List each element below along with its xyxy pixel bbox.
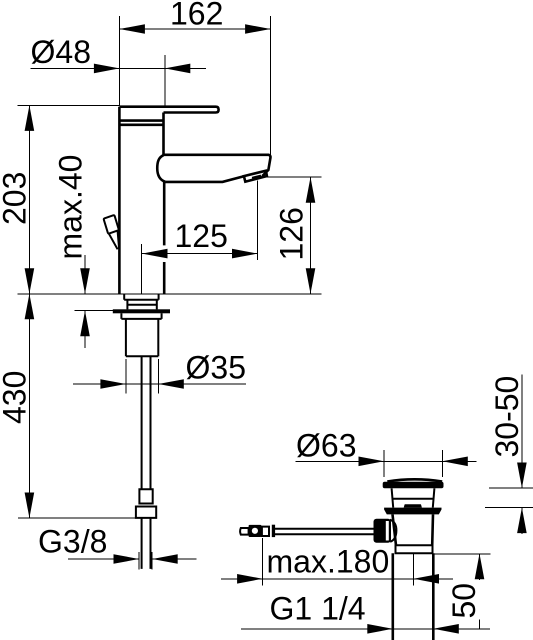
svg-text:max.40: max.40 (53, 155, 89, 260)
ball joint knob (filled) (374, 519, 392, 543)
bottom reference line (hose end level) (18, 517, 136, 519)
rod clamp block with hole (249, 525, 262, 537)
plug cap brim (filled) (383, 482, 444, 489)
dimension 162 (overall projection, top) (119, 0, 270, 155)
svg-text:162: 162 (170, 0, 223, 32)
drain pull knob on body (104, 215, 119, 249)
ball joint socket arc (390, 520, 397, 542)
mounting nut (121, 313, 161, 319)
plug neck ring line (393, 498, 433, 500)
hose lower tube (142, 518, 151, 569)
aerator outlet (244, 171, 267, 182)
svg-text:125: 125 (175, 218, 228, 254)
dimension Ø63 (plug diameter) (296, 427, 477, 477)
hose ferrule (139, 489, 152, 503)
dimension max.40 (deck thickness) (53, 155, 90, 348)
faucet lever handle (119, 107, 218, 113)
svg-text:G3/8: G3/8 (38, 524, 107, 560)
drain body (393, 514, 434, 545)
dimension 125 (spout reach) (142, 181, 258, 294)
dimension G1 1/4 (tailpipe thread) (241, 591, 490, 634)
threaded shank Ø35 (126, 319, 158, 356)
mounting neck ring 2 (127, 300, 156, 310)
svg-text:G1 1/4: G1 1/4 (270, 591, 366, 627)
faucet body right edge (162, 113, 165, 294)
pull rod (275, 529, 375, 535)
deck underside line (75, 310, 113, 312)
gasket washer (filled) (113, 309, 170, 313)
drain flange (filled) (384, 508, 441, 515)
dimension max.180 (rod length) (221, 538, 453, 586)
dimension Ø48 (body diameter) (31, 34, 207, 106)
svg-text:max.180: max.180 (267, 544, 390, 580)
plug neck (392, 488, 435, 507)
rod end pin (240, 528, 249, 535)
dimension 430 (hose length below deck) (0, 294, 34, 518)
svg-text:Ø35: Ø35 (186, 350, 246, 386)
dimension 30-50 (plug height range) (485, 374, 533, 534)
svg-text:50: 50 (446, 583, 482, 619)
handle collar joint rings (119, 121, 163, 125)
dimension 126 (outlet height) (259, 177, 322, 294)
dimension Ø35 (shank diameter) (73, 350, 246, 394)
mounting neck ring 1 (124, 294, 158, 300)
plug knurl bump (filled) (404, 504, 422, 507)
svg-text:Ø63: Ø63 (296, 427, 356, 463)
hose nut G3/8 (136, 507, 156, 518)
extension line drain bottom (433, 553, 490, 555)
svg-text:203: 203 (0, 172, 33, 225)
pop-up plug cap dome (387, 479, 442, 481)
svg-text:Ø48: Ø48 (31, 34, 91, 70)
rod clamp sleeve (262, 527, 269, 536)
spout outline (157, 155, 165, 182)
deck reference line (18, 293, 177, 295)
drain bottom nut (396, 545, 433, 553)
dimension 50 (tailpipe stub) (446, 554, 484, 629)
rod clamp screw (272, 525, 275, 537)
svg-text:430: 430 (0, 371, 33, 424)
dimension G3/8 (hose thread) (38, 524, 197, 570)
svg-text:126: 126 (274, 207, 310, 260)
dimension 203 (height above deck) (0, 105, 119, 293)
faucet body left edge (118, 107, 121, 294)
supply hose tube (142, 356, 151, 489)
tailpipe (393, 553, 434, 640)
svg-text:30-50: 30-50 (489, 376, 525, 458)
